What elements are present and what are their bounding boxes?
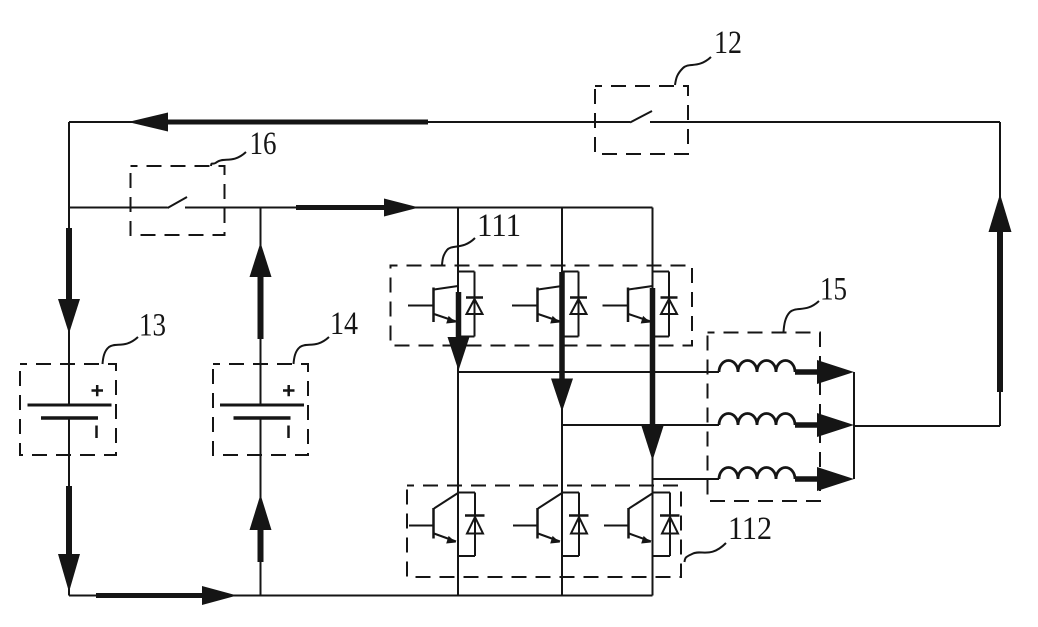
wire left vertical lower <box>68 418 70 596</box>
diode Dphase B leg branch <box>562 493 579 557</box>
diode Dphase B leg triangle <box>571 299 587 314</box>
dashed box 112 <box>407 486 681 578</box>
current arrow battery 14 lower pointing up <box>250 495 272 563</box>
wire right vertical <box>999 122 1001 426</box>
diode Dphase A leg triangle <box>467 299 483 314</box>
IGBT Q6 gate lead <box>604 525 629 527</box>
IGBT Q2 emitter line <box>538 314 560 322</box>
diode Dphase C leg cathode bar <box>660 514 680 517</box>
IGBT Q4 gate lead <box>409 525 434 527</box>
leader 12 <box>675 57 711 85</box>
wire phase A output <box>458 371 719 373</box>
IGBT Q2 top (phase B leg) <box>512 272 587 337</box>
dashed box 111 <box>391 266 693 346</box>
wire output bus horizontal <box>854 425 1000 427</box>
wire battery 14 lead upper <box>260 208 262 405</box>
IGBT Q4 collector line <box>434 493 458 509</box>
diode Dphase B leg cathode bar <box>569 514 589 517</box>
inductor L1 <box>719 361 795 372</box>
diode Dphase B leg cathode bar <box>570 296 587 299</box>
current arrow phase C pointing right <box>795 467 854 491</box>
inductor L2 <box>719 414 795 425</box>
IGBT Q5 gate bar <box>536 508 539 539</box>
svg-text:112: 112 <box>728 511 772 547</box>
wire second bus left segment <box>69 207 168 209</box>
wire phase C output <box>653 478 720 480</box>
svg-text:111: 111 <box>477 208 521 244</box>
switch 16 blade <box>168 197 188 208</box>
battery 14 plus sign <box>283 385 295 396</box>
wire top bus left segment <box>69 121 630 123</box>
diode Dphase A leg branch <box>458 493 475 557</box>
svg-text:14: 14 <box>330 306 358 342</box>
current arrow leg C pointing down <box>642 288 664 461</box>
IGBT Q1 collector line <box>434 286 458 290</box>
IGBT Q4 bottom (phase A leg) <box>409 493 485 557</box>
wire inverter leg A <box>457 208 459 596</box>
diode Dphase B leg branch <box>562 272 579 337</box>
current arrow phase B pointing right <box>795 413 854 437</box>
IGBT Q4 emitter arrowhead <box>446 536 456 544</box>
IGBT Q2 emitter arrowhead <box>550 316 560 324</box>
current arrow top bus pointing left <box>128 113 428 132</box>
IGBT Q3 emitter line <box>629 314 651 322</box>
wire phase B output <box>562 424 719 426</box>
svg-text:16: 16 <box>250 126 277 162</box>
leader 14 <box>294 337 330 364</box>
IGBT Q6 emitter line <box>629 534 651 542</box>
leader 111 <box>442 238 475 265</box>
IGBT Q5 bottom (phase B leg) <box>513 493 589 557</box>
IGBT Q1 emitter arrowhead <box>446 316 456 324</box>
current arrow leg A pointing down <box>448 292 470 371</box>
battery 13 plate top <box>28 404 112 407</box>
dashed box battery 14 <box>213 364 308 455</box>
IGBT Q4 gate bar <box>432 508 435 539</box>
IGBT Q1 top (phase A leg) <box>408 272 483 337</box>
current arrow leg B pointing down <box>551 272 573 412</box>
IGBT Q1 emitter line <box>434 314 456 322</box>
diode Dphase A leg cathode bar <box>465 514 485 517</box>
IGBT Q2 collector line <box>538 286 562 290</box>
IGBT Q3 top (phase C leg) <box>603 272 678 337</box>
leader 16 <box>211 152 246 166</box>
IGBT Q6 gate bar <box>627 508 630 539</box>
IGBT Q3 emitter arrowhead <box>641 316 651 324</box>
dashed box 15 <box>708 333 821 502</box>
battery 13 minus tick <box>95 426 98 439</box>
wire inverter leg B <box>561 208 563 596</box>
IGBT Q3 gate bar <box>627 288 630 323</box>
current arrow battery 14 upper pointing up <box>250 243 272 340</box>
IGBT Q6 bottom (phase C leg) <box>604 493 680 557</box>
IGBT Q6 collector line <box>629 493 653 509</box>
IGBT Q1 gate lead <box>408 305 434 307</box>
leader 13 <box>103 337 139 364</box>
IGBT Q4 emitter line <box>434 534 456 542</box>
current arrow left vertical lower pointing down <box>58 486 80 592</box>
diode Dphase C leg branch <box>653 272 670 337</box>
IGBT Q2 gate bar <box>536 288 539 323</box>
wire battery 14 lead lower <box>260 418 262 596</box>
battery 14 plate bottom <box>234 416 291 420</box>
dashed box 12 <box>595 86 688 154</box>
svg-text:12: 12 <box>714 25 742 61</box>
IGBT Q5 emitter line <box>538 534 560 542</box>
wire output bus vertical <box>853 372 855 479</box>
IGBT Q1 gate bar <box>432 288 435 323</box>
wire top bus right segment <box>650 121 1000 123</box>
wire inverter leg C <box>652 208 654 596</box>
IGBT Q3 collector line <box>629 286 653 290</box>
diode Dphase A leg branch <box>458 272 475 337</box>
dashed box 16 <box>131 166 225 235</box>
dashed box battery 13 <box>20 364 116 455</box>
IGBT Q6 emitter arrowhead <box>641 536 651 544</box>
svg-text:15: 15 <box>820 272 847 308</box>
svg-text:13: 13 <box>139 308 166 344</box>
inductor L3 <box>719 468 795 479</box>
IGBT Q5 gate lead <box>513 525 538 527</box>
current arrow phase A pointing right <box>795 360 854 384</box>
battery 14 minus tick <box>287 426 290 439</box>
current arrow left vertical upper pointing down <box>58 228 80 334</box>
diode Dphase C leg branch <box>653 493 670 557</box>
IGBT Q5 emitter arrowhead <box>550 536 560 544</box>
diode Dphase A leg cathode bar <box>466 296 483 299</box>
switch 12 blade <box>630 111 652 123</box>
current arrow right vertical pointing up <box>989 194 1012 392</box>
battery 13 plus sign <box>92 385 104 396</box>
diode Dphase A leg triangle <box>467 517 483 534</box>
leader 112 <box>685 543 727 562</box>
battery 14 plate top <box>220 404 304 407</box>
diode Dphase C leg triangle <box>662 517 678 534</box>
IGBT Q3 gate lead <box>603 305 629 307</box>
wire left vertical <box>68 122 70 405</box>
current arrow second bus pointing right <box>296 199 419 217</box>
wire bottom bus <box>69 595 653 597</box>
diode Dphase C leg cathode bar <box>661 296 678 299</box>
battery 13 plate bottom <box>41 416 98 420</box>
leader 15 <box>784 301 820 332</box>
diode Dphase B leg triangle <box>571 517 587 534</box>
IGBT Q5 collector line <box>538 493 562 509</box>
IGBT Q2 gate lead <box>512 305 538 307</box>
wire second bus right segment <box>185 207 653 209</box>
diode Dphase C leg triangle <box>661 299 677 314</box>
current arrow bottom bus pointing right <box>96 586 237 605</box>
